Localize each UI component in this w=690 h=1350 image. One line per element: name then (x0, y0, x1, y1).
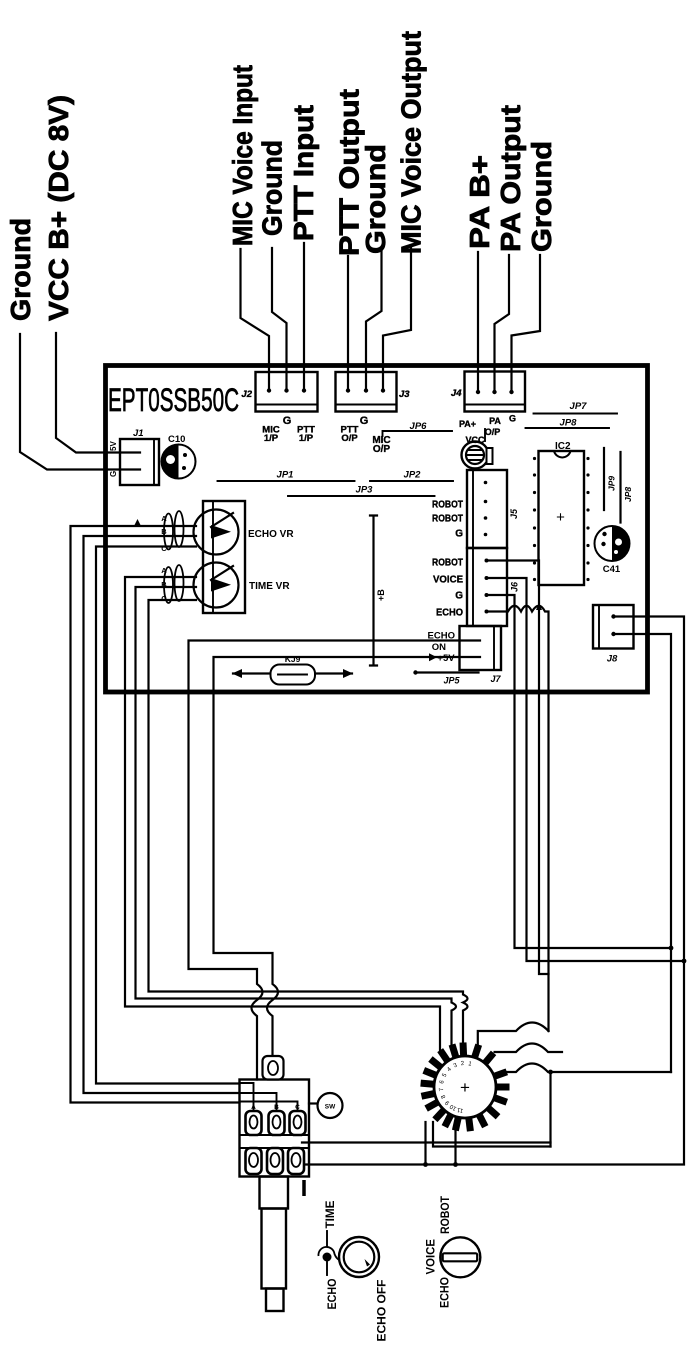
svg-text:+B: +B (376, 589, 386, 601)
svg-text:ECHO OFF: ECHO OFF (375, 1280, 389, 1342)
svg-text:J5: J5 (509, 508, 519, 519)
svg-text:J6: J6 (510, 581, 520, 592)
svg-text:C10: C10 (168, 434, 185, 445)
svg-text:MIC Voice Output: MIC Voice Output (396, 31, 427, 254)
svg-text:A: A (161, 514, 167, 523)
svg-text:+5V: +5V (437, 653, 455, 664)
svg-text:G: G (360, 415, 369, 427)
svg-text:VOICE: VOICE (424, 1239, 438, 1275)
svg-text:5V: 5V (109, 441, 118, 451)
svg-text:ECHO: ECHO (428, 631, 455, 642)
svg-text:PA: PA (489, 416, 501, 426)
svg-text:VOICE: VOICE (433, 575, 463, 586)
svg-text:1/P: 1/P (264, 433, 279, 444)
svg-text:C: C (161, 544, 167, 553)
svg-text:ECHO: ECHO (325, 1279, 339, 1310)
svg-text:MIC Voice Input: MIC Voice Input (227, 65, 258, 246)
svg-text:G: G (283, 415, 292, 427)
svg-text:TIME: TIME (323, 1201, 337, 1229)
svg-text:+: + (460, 1078, 470, 1097)
svg-text:SW: SW (325, 1104, 336, 1111)
svg-text:JP2: JP2 (404, 470, 422, 481)
svg-text:ECHO VR: ECHO VR (248, 529, 294, 540)
svg-text:PA Output: PA Output (495, 105, 526, 252)
svg-text:JP5: JP5 (443, 676, 460, 686)
svg-text:A: A (161, 566, 167, 575)
svg-text:Ground: Ground (257, 140, 288, 236)
svg-text:G: G (455, 591, 463, 602)
svg-text:J2: J2 (241, 389, 252, 400)
svg-text:J4: J4 (451, 388, 462, 399)
svg-text:EPT0SSB50C: EPT0SSB50C (108, 382, 239, 418)
svg-text:G: G (455, 529, 463, 540)
svg-text:TIME VR: TIME VR (249, 581, 290, 592)
svg-text:IC2: IC2 (555, 441, 571, 452)
svg-text:PTT Input: PTT Input (288, 105, 319, 241)
svg-text:JP7: JP7 (570, 401, 588, 412)
svg-text:C: C (161, 594, 167, 603)
svg-text:J1: J1 (133, 428, 144, 439)
svg-text:JP3: JP3 (356, 485, 374, 496)
svg-text:VCC B+ (DC 8V): VCC B+ (DC 8V) (43, 95, 74, 321)
svg-text:J8: J8 (607, 654, 618, 665)
svg-text:PA+: PA+ (459, 419, 476, 429)
svg-text:Ground: Ground (360, 144, 391, 254)
svg-text:ROBOT: ROBOT (438, 1195, 452, 1234)
svg-text:B: B (161, 527, 167, 536)
svg-text:+: + (556, 509, 565, 526)
svg-text:ROBOT: ROBOT (432, 514, 463, 525)
svg-text:J7: J7 (490, 674, 501, 684)
svg-text:ROBOT: ROBOT (432, 500, 463, 511)
svg-text:JP6: JP6 (410, 421, 428, 432)
svg-text:O/P: O/P (485, 427, 501, 437)
svg-text:Ground: Ground (526, 141, 557, 252)
svg-text:PA B+: PA B+ (464, 155, 495, 249)
svg-text:ROBOT: ROBOT (432, 558, 463, 569)
svg-text:ECHO: ECHO (436, 608, 463, 619)
svg-text:G: G (509, 414, 516, 424)
svg-text:ON: ON (432, 642, 446, 653)
svg-text:ECHO: ECHO (438, 1277, 452, 1308)
svg-text:O/P: O/P (373, 444, 391, 455)
svg-text:JP9: JP9 (607, 476, 617, 491)
svg-text:1/P: 1/P (299, 433, 314, 444)
svg-text:Ground: Ground (5, 218, 36, 321)
svg-text:G: G (109, 471, 118, 477)
svg-text:J3: J3 (399, 389, 410, 400)
svg-text:C41: C41 (603, 564, 621, 575)
svg-text:JP8: JP8 (623, 487, 633, 502)
svg-text:O/P: O/P (341, 433, 358, 444)
svg-text:JP1: JP1 (277, 470, 294, 481)
svg-text:JP8: JP8 (560, 418, 578, 429)
svg-text:KJ9: KJ9 (285, 654, 301, 664)
